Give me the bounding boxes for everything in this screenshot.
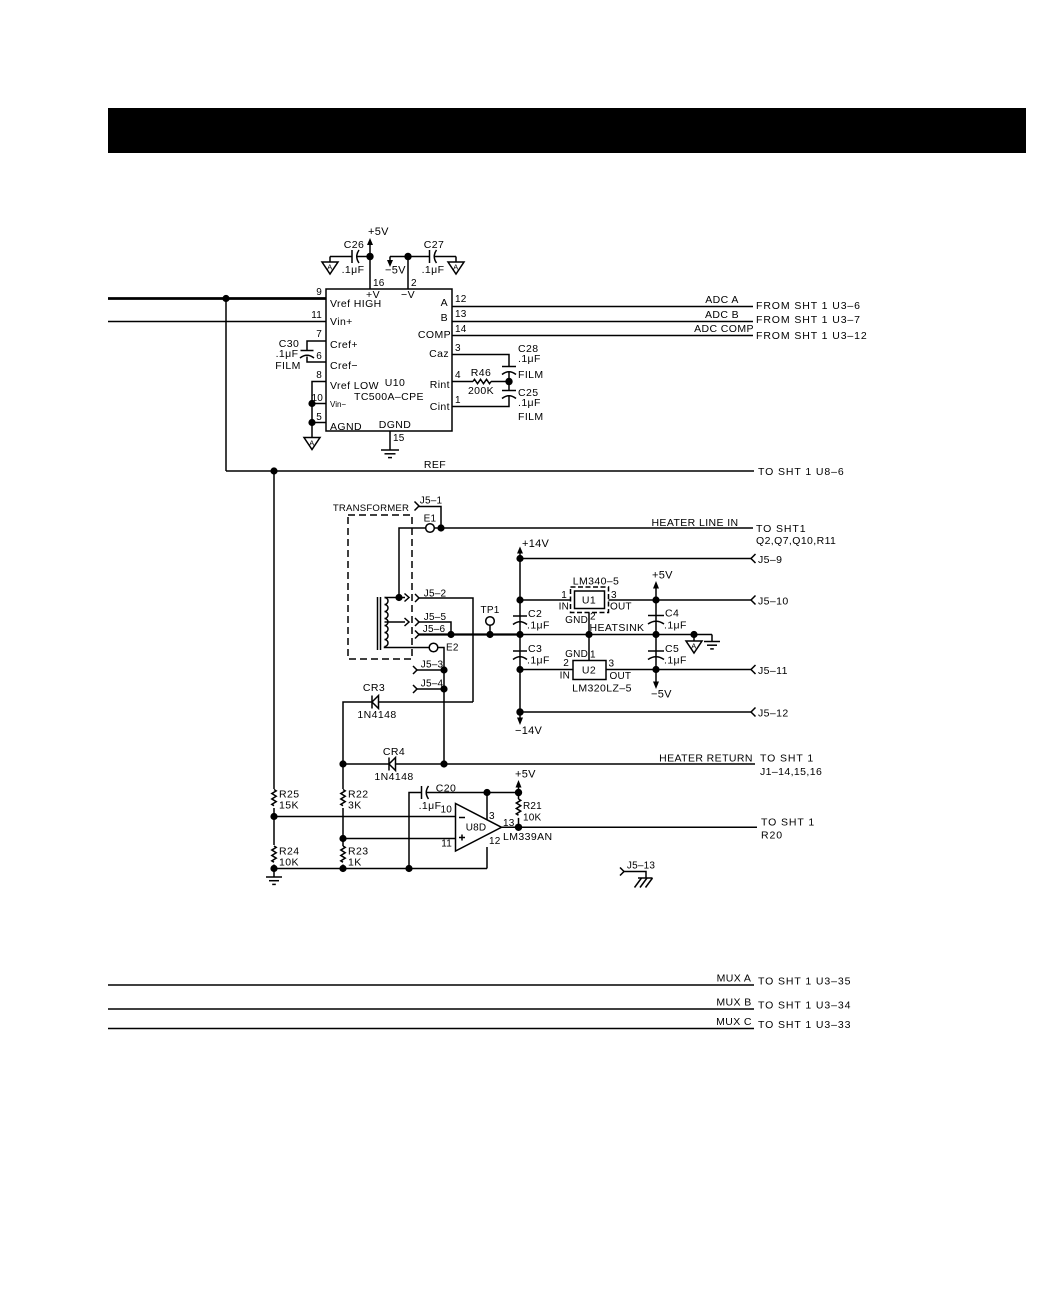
connector J5-13 <box>620 861 655 876</box>
node label ADC A <box>705 294 739 306</box>
svg-text:C2: C2 <box>528 608 542 620</box>
svg-text:.1μF: .1μF <box>276 348 299 360</box>
U8D pin number 10 <box>440 805 452 816</box>
svg-text:8: 8 <box>316 370 322 381</box>
svg-text:FROM SHT 1 U3–12: FROM SHT 1 U3–12 <box>756 330 868 342</box>
capacitor C26 .1uF <box>330 239 370 276</box>
wire R25 to inverting input <box>273 808 275 817</box>
svg-text:U8D: U8D <box>466 823 487 834</box>
resistor R22 3K <box>341 789 369 812</box>
wire MUX B <box>108 1008 754 1010</box>
svg-text:MUX A: MUX A <box>717 973 752 985</box>
svg-text:.1μF: .1μF <box>518 397 541 409</box>
U10 pin number 8 <box>316 370 322 381</box>
wire transformer top tap <box>385 597 400 599</box>
svg-text:GND: GND <box>565 615 588 626</box>
svg-text:5: 5 <box>316 412 322 423</box>
wire comparator pin 3 pullup <box>486 793 488 821</box>
svg-text:J5–12: J5–12 <box>758 708 789 720</box>
svg-text:U1: U1 <box>582 595 596 607</box>
earth ground at heatsink end <box>704 635 720 649</box>
U10 pin name COMP <box>418 329 451 341</box>
svg-text:12: 12 <box>489 836 501 847</box>
svg-text:.1μF: .1μF <box>527 620 550 632</box>
svg-text:9: 9 <box>316 287 322 298</box>
svg-text:A: A <box>453 263 458 272</box>
+5V supply arrow at U1 <box>652 570 673 601</box>
wire pin 15 DGND stub <box>389 431 391 450</box>
U10 pin number 4 <box>455 370 461 381</box>
diode CR4 1N4148 <box>374 746 413 783</box>
connector J5-6 <box>415 624 445 639</box>
capacitor C28 .1uF FILM <box>502 343 544 382</box>
wire U1 input from rail <box>520 599 571 601</box>
capacitor C20 .1uF <box>419 783 487 813</box>
svg-text:+5V: +5V <box>368 226 389 238</box>
junction U1 gnd/heatsink <box>585 631 592 638</box>
wire J5-9 <box>520 558 751 560</box>
U10 pin name A <box>441 297 448 309</box>
junction rail/heatsink <box>516 631 523 638</box>
svg-text:TP1: TP1 <box>481 605 500 616</box>
svg-text:Rint: Rint <box>430 379 450 391</box>
svg-text:+5V: +5V <box>652 570 673 582</box>
op-amp U8D LM339AN <box>456 804 502 852</box>
svg-text:ADC COMP: ADC COMP <box>694 323 754 335</box>
label J1-14,15,16 <box>760 766 822 778</box>
wire transformer bottom tap to E2 <box>385 647 430 648</box>
U10 pin number 16 <box>373 278 385 289</box>
capacitor C3 .1uF <box>513 643 550 667</box>
wire U8D pin 12 to ground rail <box>486 847 488 869</box>
wire ADC COMP (pin 14) <box>452 335 753 337</box>
junction R22/R23 divider node <box>339 835 346 842</box>
svg-text:10K: 10K <box>523 813 542 824</box>
label TO SHT 1 output <box>761 817 815 829</box>
resistor R23 1K <box>341 846 369 869</box>
analog ground right of C27 <box>448 257 464 275</box>
wire J5-4 <box>417 688 444 690</box>
capacitor C25 .1uF FILM <box>502 382 544 424</box>
title bar (redacted black band) <box>108 108 1026 153</box>
svg-text:A: A <box>441 297 448 309</box>
svg-text:LM340–5: LM340–5 <box>573 576 620 588</box>
wire C20 left leg <box>409 793 422 869</box>
svg-text:.1μF: .1μF <box>664 620 687 632</box>
wire J5-3 <box>417 669 444 671</box>
svg-text:Cref+: Cref+ <box>330 339 358 351</box>
connector J5-12 <box>751 708 789 720</box>
svg-text:J1–14,15,16: J1–14,15,16 <box>760 766 822 778</box>
svg-text:A: A <box>691 642 696 651</box>
junction +14V/J5-9 <box>516 555 523 562</box>
svg-text:A: A <box>327 263 332 272</box>
test point TP1 <box>481 605 500 635</box>
svg-text:FILM: FILM <box>275 360 301 372</box>
junction R23 ground node <box>339 865 346 872</box>
wire MUX C <box>108 1028 754 1030</box>
connector J5-4 <box>413 679 443 694</box>
junction J5-4 node <box>440 685 447 692</box>
junction output/R21 <box>515 824 522 831</box>
analog ground below AGND <box>304 432 320 450</box>
capacitor C2 .1uF <box>513 608 550 632</box>
svg-text:U10: U10 <box>385 377 405 389</box>
svg-text:ADC A: ADC A <box>705 294 739 306</box>
junction J5-5/J5-6 <box>447 631 454 638</box>
wire J5-2 down to CR3 <box>419 598 473 702</box>
svg-text:−5V: −5V <box>385 265 406 277</box>
junction U1 out node <box>652 596 659 603</box>
svg-text:R20: R20 <box>761 830 783 842</box>
svg-text:Vin+: Vin+ <box>330 316 353 328</box>
U10 pin number 13 <box>455 309 467 320</box>
wire U1 out to +5V node <box>609 599 752 601</box>
wire J5-6 heater feed <box>419 633 520 635</box>
U1 pin number 3 <box>611 590 617 601</box>
U2 pin number 2 <box>563 658 569 669</box>
U10 pin name Caz <box>429 348 449 360</box>
svg-text:FILM: FILM <box>518 369 544 381</box>
U8D pin number 13 <box>503 818 515 829</box>
junction pin10 <box>308 400 315 407</box>
wire pin 6 Cref- stub <box>307 357 326 363</box>
part label LM339AN <box>503 831 553 843</box>
label Q2,Q7,Q10,R11 <box>756 535 836 547</box>
terminal E1 <box>424 514 437 533</box>
U1 pin number 1 <box>561 590 567 601</box>
svg-text:12: 12 <box>455 294 467 305</box>
svg-text:TO SHT 1: TO SHT 1 <box>761 817 815 829</box>
junction J5-3 node <box>440 666 447 673</box>
svg-text:HEATER RETURN: HEATER RETURN <box>659 753 753 765</box>
svg-text:TRANSFORMER: TRANSFORMER <box>333 503 409 514</box>
svg-text:1: 1 <box>455 395 461 406</box>
svg-text:TO SHT 1 U3–34: TO SHT 1 U3–34 <box>758 1000 851 1012</box>
junction top tap <box>395 594 402 601</box>
junction E1 node <box>437 524 444 531</box>
U10 pin number 12 <box>455 294 467 305</box>
svg-text:J5–10: J5–10 <box>758 596 789 608</box>
svg-text:TO SHT 1: TO SHT 1 <box>760 753 814 765</box>
wire R24 to ground rail <box>273 865 275 869</box>
junction CR4 left node <box>339 760 346 767</box>
diode CR3 1N4148 <box>357 682 473 721</box>
node label REF <box>424 459 446 471</box>
svg-text:J5–3: J5–3 <box>421 660 444 671</box>
U10 pin name -V <box>401 289 415 301</box>
wire R22 to R23 <box>342 808 344 846</box>
svg-text:4: 4 <box>455 370 461 381</box>
wire U2 GND stub <box>588 635 590 661</box>
-5V supply arrow <box>385 257 406 277</box>
chassis ground <box>635 878 653 888</box>
wire J5-13 to chassis ground <box>624 872 646 879</box>
node label MUX A <box>717 973 752 985</box>
svg-text:C20: C20 <box>436 783 456 795</box>
U10 pin name Cint <box>430 401 450 413</box>
svg-text:16: 16 <box>373 278 385 289</box>
svg-text:3: 3 <box>609 659 615 670</box>
svg-text:.1μF: .1μF <box>342 264 365 276</box>
+14V supply arrow <box>517 538 550 559</box>
capacitor C5 .1uF <box>648 643 687 667</box>
node label HEATSINK <box>590 622 645 634</box>
svg-text:10: 10 <box>440 805 452 816</box>
wire pin 5 AGND stub <box>312 422 326 424</box>
node label HEATER RETURN <box>659 753 753 765</box>
wire REF net <box>226 470 754 472</box>
U10 pin name DGND <box>379 419 412 431</box>
junction on pin 9 wire <box>222 295 229 302</box>
label TRANSFORMER <box>333 503 409 514</box>
regulator U2 LM320LZ-5 <box>572 661 632 695</box>
digital ground DGND <box>381 450 399 458</box>
wire R23 to ground rail <box>342 865 344 869</box>
svg-text:1N4148: 1N4148 <box>357 709 396 721</box>
label R20 <box>761 830 783 842</box>
wire -5V to C27 <box>390 256 430 258</box>
svg-text:A: A <box>309 439 314 448</box>
U10 pin name AGND <box>330 421 362 433</box>
svg-text:15K: 15K <box>279 800 299 812</box>
svg-text:C5: C5 <box>665 643 679 655</box>
wire E2 down to CR4 <box>438 648 444 765</box>
junction pin5 <box>308 419 315 426</box>
svg-text:10K: 10K <box>279 857 299 869</box>
resistor R46 200K <box>452 367 509 397</box>
wire HEATER LINE IN <box>434 527 753 529</box>
U8D pin number 3 <box>489 811 495 822</box>
junction pin16 node <box>366 253 373 260</box>
svg-text:.1μF: .1μF <box>419 800 442 812</box>
svg-text:J5–4: J5–4 <box>421 679 444 690</box>
svg-text:3K: 3K <box>348 800 362 812</box>
U2 pin label IN <box>560 671 570 682</box>
wire J5-1 to E1 <box>419 507 441 529</box>
wire +V pin16 <box>369 257 371 290</box>
svg-text:R21: R21 <box>523 801 542 812</box>
junction R24 ground node <box>270 865 277 872</box>
svg-text:.1μF: .1μF <box>422 264 445 276</box>
svg-text:2: 2 <box>563 658 569 669</box>
wire pin 1 Cint to C25 <box>452 397 509 407</box>
junction C28/C25/R46 <box>505 378 512 385</box>
junction R21 top node <box>515 789 522 796</box>
op IC U10 TC500A-CPE body <box>326 289 452 431</box>
wire transformer primary to E1 <box>399 528 426 598</box>
svg-text:CR3: CR3 <box>363 682 385 694</box>
wire Vref HIGH input (pin 9) <box>108 297 326 300</box>
svg-text:TC500A–CPE: TC500A–CPE <box>354 391 424 403</box>
svg-text:LM339AN: LM339AN <box>503 831 553 843</box>
-14V supply arrow <box>515 712 543 737</box>
junction C20 ground node <box>405 865 412 872</box>
junction R25 output node <box>270 813 277 820</box>
wire CR4 anode line <box>343 763 389 765</box>
svg-text:C26: C26 <box>344 239 364 251</box>
wire R25 node to R24 <box>273 817 275 846</box>
svg-text:3: 3 <box>455 343 461 354</box>
svg-text:MUX B: MUX B <box>716 997 751 1009</box>
wire CR3 anode line <box>343 702 372 764</box>
U2 pin number 1 <box>590 650 596 661</box>
wire C20 node to +5V pullup <box>487 792 519 794</box>
node label ADC B <box>705 309 739 321</box>
U2 pin number 3 <box>609 659 615 670</box>
U1 pin number 2 <box>590 612 596 623</box>
wire Vin+ input (pin 11) <box>108 321 326 323</box>
wire pin 7 Cref+ stub <box>307 341 326 350</box>
svg-text:TO SHT1: TO SHT1 <box>756 523 806 535</box>
label TO SHT 1 U3-34 <box>758 1000 851 1012</box>
junction E2 rail on heater return <box>440 760 447 767</box>
U10 pin number 5 <box>316 412 322 423</box>
U2 pin label GND <box>565 649 588 660</box>
svg-text:IN: IN <box>560 671 570 682</box>
svg-text:J5–1: J5–1 <box>420 496 443 507</box>
analog ground on heatsink net <box>686 635 702 654</box>
svg-text:B: B <box>441 312 448 324</box>
label FROM SHT 1 U3-7 <box>756 314 861 326</box>
connector J5-1 <box>415 496 443 511</box>
svg-text:TO SHT 1 U8–6: TO SHT 1 U8–6 <box>758 466 845 478</box>
svg-text:Vin−: Vin− <box>330 400 346 409</box>
svg-text:1N4148: 1N4148 <box>374 771 413 783</box>
wire pin 3 Caz to C28 <box>452 355 509 367</box>
svg-text:13: 13 <box>455 309 467 320</box>
junction TP1 node <box>486 631 493 638</box>
svg-text:Cint: Cint <box>430 401 450 413</box>
svg-text:Vref LOW: Vref LOW <box>330 380 379 392</box>
label TO SHT 1 heater return <box>760 753 814 765</box>
svg-text:FILM: FILM <box>518 411 544 423</box>
wire U1 GND stub <box>588 613 590 635</box>
svg-text:−5V: −5V <box>651 689 672 701</box>
U10 pin name Vref HIGH <box>330 298 382 310</box>
wire pin 8 Vref LOW stub <box>312 382 326 432</box>
svg-text:−V: −V <box>401 289 415 301</box>
svg-text:FROM SHT 1 U3–7: FROM SHT 1 U3–7 <box>756 314 861 326</box>
resistor R24 10K <box>272 846 300 869</box>
connector J5-11 <box>751 665 788 677</box>
junction rail/U2 in <box>516 666 523 673</box>
transformer dashed outline <box>348 515 412 659</box>
U10 pin name Vref LOW <box>330 380 379 392</box>
earth ground bottom left <box>266 869 282 885</box>
svg-text:−14V: −14V <box>515 725 543 737</box>
svg-text:2: 2 <box>411 278 417 289</box>
label TO SHT 1 U8-6 <box>758 466 845 478</box>
U10 pin name Cref+ <box>330 339 358 351</box>
U2 pin label OUT <box>610 671 632 682</box>
wire J5-5 to J5-6 node <box>419 622 451 635</box>
svg-text:.1μF: .1μF <box>527 655 550 667</box>
U1 pin label OUT <box>610 602 632 613</box>
svg-text:REF: REF <box>424 459 446 471</box>
svg-text:HEATSINK: HEATSINK <box>590 622 645 634</box>
wire heatsink net <box>520 634 712 636</box>
U10 pin number 15 <box>393 433 405 444</box>
U10 pin name Cref- <box>330 360 358 372</box>
svg-text:Q2,Q7,Q10,R11: Q2,Q7,Q10,R11 <box>756 535 836 547</box>
svg-text:COMP: COMP <box>418 329 451 341</box>
node label ADC COMP <box>694 323 754 335</box>
svg-text:HEATER LINE IN: HEATER LINE IN <box>651 517 738 529</box>
svg-text:ADC B: ADC B <box>705 309 739 321</box>
junction rail/U1 in <box>516 596 523 603</box>
U1 pin label GND <box>565 615 588 626</box>
svg-text:OUT: OUT <box>610 602 632 613</box>
svg-text:1: 1 <box>590 650 596 661</box>
junction C4/C5/heatsink <box>652 631 659 638</box>
svg-text:R46: R46 <box>471 367 491 379</box>
svg-text:OUT: OUT <box>610 671 632 682</box>
U1 pin label IN <box>559 602 569 613</box>
wire comparator output <box>502 826 758 828</box>
capacitor C4 .1uF <box>648 608 687 632</box>
U8D pin number 11 <box>441 839 452 850</box>
wire U2 out to -5V node <box>606 669 656 671</box>
wire junction to REF rail <box>225 299 227 472</box>
wire ADC B (pin 13) <box>452 321 753 323</box>
U10 pin number 14 <box>455 324 467 335</box>
svg-text:+14V: +14V <box>522 538 550 550</box>
wire transformer mid tap arrow <box>385 618 410 626</box>
svg-text:11: 11 <box>441 839 452 850</box>
capacitor C30 .1uF FILM <box>275 338 314 372</box>
U10 pin name Vin+ <box>330 316 353 328</box>
svg-text:DGND: DGND <box>379 419 412 431</box>
svg-text:+V: +V <box>366 289 380 301</box>
svg-text:FROM SHT 1 U3–6: FROM SHT 1 U3–6 <box>756 300 861 312</box>
svg-text:MUX C: MUX C <box>716 1016 752 1028</box>
arrow top tap <box>399 594 409 602</box>
svg-text:AGND: AGND <box>330 421 362 433</box>
wire C4/C5 leg <box>655 600 657 670</box>
svg-text:Cref−: Cref− <box>330 360 358 372</box>
connector J5-3 <box>413 660 443 675</box>
svg-text:7: 7 <box>316 329 322 340</box>
U10 pin number 10 <box>311 393 323 404</box>
label TO SHT 1 U3-33 <box>758 1019 851 1031</box>
wire MUX A <box>108 984 754 986</box>
U10 pin number 2 <box>411 278 417 289</box>
+5V supply arrow at U10 <box>367 226 389 257</box>
connector J5-10 <box>751 596 789 608</box>
svg-text:.1μF: .1μF <box>518 353 541 365</box>
wire REF junction down to R25 <box>273 471 275 789</box>
svg-text:3: 3 <box>489 811 495 822</box>
wire ground rail bottom <box>274 868 487 870</box>
svg-text:Caz: Caz <box>429 348 449 360</box>
svg-text:CR4: CR4 <box>383 746 405 758</box>
label TO SHT1 heater line <box>756 523 806 535</box>
svg-text:6: 6 <box>316 351 322 362</box>
wire U2 input from rail <box>520 669 573 671</box>
junction REF to divider rail <box>270 467 277 474</box>
svg-text:C27: C27 <box>424 239 444 251</box>
analog ground left of C26 <box>322 257 338 275</box>
wire J5-11 <box>656 669 751 671</box>
wire ADC A (pin 12) <box>452 306 753 308</box>
wire HEATER RETURN <box>396 763 756 765</box>
node label HEATER LINE IN <box>651 517 738 529</box>
junction -14V node <box>516 708 523 715</box>
U10 pin name B <box>441 312 448 324</box>
svg-text:U2: U2 <box>582 665 596 677</box>
wire J5-12 <box>520 711 751 713</box>
